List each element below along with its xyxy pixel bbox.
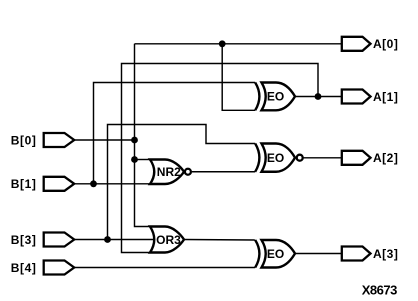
svg-text:B[4]: B[4]: [11, 261, 37, 275]
svg-text:A[0]: A[0]: [373, 37, 398, 51]
svg-text:X8673: X8673: [362, 283, 397, 298]
wire A[0] row horizontal to pad: [135, 43, 342, 45]
wire EO2 output bubble to A[2] pad: [303, 157, 341, 159]
XNOR gate EO (U for A[2]): [255, 144, 303, 172]
svg-text:EO: EO: [267, 151, 284, 165]
svg-text:A[3]: A[3]: [373, 247, 398, 261]
junction dot A[1] output: [315, 93, 322, 100]
svg-text:A[2]: A[2]: [373, 151, 398, 165]
svg-text:OR3: OR3: [156, 233, 181, 247]
junction dot B[0]/vertical: [131, 137, 138, 144]
input pad B[4]: [11, 261, 74, 275]
output pad A[0]: [342, 37, 399, 51]
input pad B[0]: [11, 133, 74, 147]
svg-text:B[3]: B[3]: [11, 233, 37, 247]
junction dot A[0] row: [219, 40, 226, 47]
OR gate OR3: [150, 227, 184, 253]
svg-text:EO: EO: [267, 90, 284, 104]
wire B[0] pad to junction: [74, 139, 134, 141]
wire EO3 output to A[3] pad: [295, 253, 342, 255]
wire B[1] pad to NR2 bottom input: [74, 183, 150, 185]
wire from A[0] junction down to EO1 bottom input: [222, 44, 255, 111]
wire vertical B[0] net x=134.5 from A[0] row down to OR3 top corner: [135, 44, 151, 227]
svg-text:B[1]: B[1]: [11, 177, 37, 191]
wire B[4] pad to EO3 bottom input: [74, 267, 255, 269]
wire EO1 output to A[1] pad: [295, 96, 342, 98]
output pad A[3]: [342, 247, 399, 261]
svg-text:A[1]: A[1]: [373, 90, 398, 104]
wire B[1] net up and right to EO1 top input: [94, 83, 256, 184]
junction dot B[3]/vertical: [104, 236, 111, 243]
svg-text:EO: EO: [267, 247, 284, 261]
wire A[1] net feedback up-left-down to OR3 bottom input: [122, 64, 319, 253]
junction dot NR2 top input: [131, 156, 138, 163]
wire B[3] net up and jog to EO2 top input: [108, 125, 256, 240]
wire OR3 output to EO3 top input: [184, 239, 255, 242]
input pad B[1]: [11, 177, 74, 191]
svg-text:NR2: NR2: [157, 165, 181, 179]
svg-text:B[0]: B[0]: [11, 133, 37, 147]
wire B[3] pad to OR3 middle input: [74, 239, 154, 241]
junction dot B[1]/vertical: [90, 180, 97, 187]
wire NR2 output to EO2 bottom input: [192, 171, 255, 173]
output pad A[1]: [342, 90, 399, 104]
XOR gate EO (U for A[1]): [255, 83, 295, 111]
NOR gate NR2: [150, 160, 191, 185]
input pad B[3]: [11, 233, 74, 247]
wire NR2 top input stub: [135, 159, 151, 161]
XOR gate EO (U for A[3]): [255, 240, 295, 268]
output pad A[2]: [342, 151, 399, 165]
